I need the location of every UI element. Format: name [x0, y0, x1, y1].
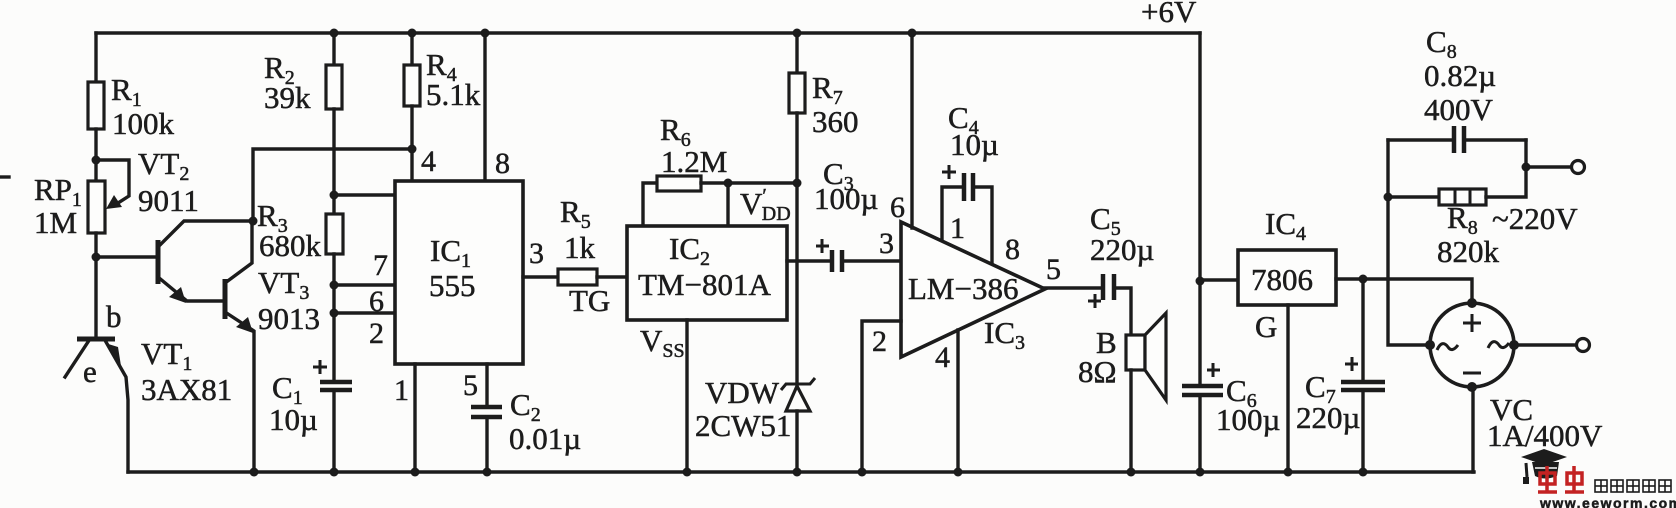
resistor R5: [558, 194, 610, 318]
node: rail/R2: [330, 29, 339, 38]
wire: R5 to IC2: [597, 275, 627, 278]
node: ground C1: [330, 468, 339, 477]
node: rail/pin8: [481, 29, 490, 38]
transistor VT2 emitter with arrow: [158, 277, 225, 303]
wire: +6V drop at right: [1198, 33, 1201, 281]
svg-text:2: 2: [872, 325, 887, 358]
watermark: red chong glyph 2: [1565, 466, 1584, 492]
transistor VT3 emitter to ground: [225, 312, 254, 472]
capacitor C6: [1182, 281, 1280, 437]
svg-text:3: 3: [879, 227, 894, 260]
wire: pin 5: [485, 364, 488, 407]
transistor VT1 emitter open lead: [65, 342, 88, 377]
resistor R4: [404, 33, 481, 112]
node: 7806 output junction: [1196, 277, 1205, 286]
node: ground pin1: [411, 468, 420, 477]
upper AC terminal: [1572, 161, 1585, 174]
svg-text:VDW: VDW: [705, 375, 780, 410]
svg-text:5: 5: [463, 369, 478, 402]
svg-text:1: 1: [394, 374, 409, 407]
wire: pin 3 output: [523, 275, 558, 278]
bridge rectifier VC body: [1430, 303, 1603, 453]
node: AC terminal junction: [1522, 163, 1531, 172]
node: ground pin4: [954, 468, 963, 477]
svg-text:220µ: 220µ: [1090, 232, 1154, 267]
node: ground G: [1284, 468, 1293, 477]
wire: IC2 output: [787, 259, 831, 262]
capacitor C3: [814, 156, 878, 272]
svg-text:0.01µ: 0.01µ: [509, 421, 581, 456]
svg-text:39k: 39k: [264, 80, 311, 115]
wire: R6 to R7 column: [701, 181, 797, 184]
svg-text:www.eeworm.com: www.eeworm.com: [1539, 495, 1676, 508]
svg-text:3: 3: [529, 237, 544, 270]
potentiometer RP1: [34, 172, 105, 240]
wire: G pin to ground: [1286, 305, 1289, 472]
resistor R1: [88, 72, 175, 141]
wire: C1 to ground: [332, 390, 335, 472]
resistor R2: [264, 33, 342, 115]
wire: C6 to ground: [1198, 395, 1201, 472]
resistor R7: [789, 33, 859, 139]
svg-text:4: 4: [935, 341, 950, 374]
svg-text:680k: 680k: [259, 228, 322, 263]
svg-text:8: 8: [1005, 233, 1020, 266]
capacitor C2: [471, 387, 581, 456]
wire: VDD pin: [726, 183, 729, 226]
voltage regulator IC4 7806: [1238, 206, 1336, 344]
svg-text:G: G: [1255, 309, 1277, 344]
wire: R4 down to pin4 node: [410, 106, 413, 149]
IC3 LM-386 amplifier triangle: [901, 222, 1045, 357]
node: VDD junction: [724, 179, 733, 188]
svg-text:100k: 100k: [112, 106, 175, 141]
wire: VSS pin to ground: [685, 320, 688, 472]
svg-text:b: b: [106, 299, 122, 334]
wire: node down to VT1 base: [94, 257, 97, 337]
svg-text:7: 7: [373, 249, 388, 282]
svg-text:3AX81: 3AX81: [141, 372, 232, 407]
svg-text:e: e: [83, 354, 97, 389]
svg-text:8: 8: [495, 147, 510, 180]
wire: R1 to RP1: [94, 129, 97, 181]
wire: R8 right to junction column: [1486, 140, 1526, 197]
left edge scan mark: [0, 175, 9, 178]
svg-text:5.1k: 5.1k: [426, 77, 481, 112]
node: bridge bottom terminal: [1467, 382, 1477, 392]
capacitor C5: [1088, 201, 1154, 308]
node: pin6 junction: [330, 281, 339, 290]
transistor VT3 collector: [225, 223, 252, 283]
node: ground speaker: [1127, 468, 1136, 477]
resistor R3: [257, 198, 343, 263]
wire: pin 4 to ground: [956, 330, 959, 472]
svg-text:1M: 1M: [34, 205, 77, 240]
wire: +6V top supply rail: [96, 31, 1200, 34]
svg-text:~220V: ~220V: [1492, 201, 1578, 236]
capacitor C4 bypass loop: [942, 100, 999, 263]
wire: base node to VT2: [96, 255, 158, 258]
svg-text:2CW51: 2CW51: [695, 408, 791, 443]
capacitor C1: [269, 360, 352, 437]
svg-text:1A/400V: 1A/400V: [1487, 418, 1603, 453]
wire: RP1 to base node: [94, 233, 97, 257]
svg-text:9013: 9013: [258, 301, 320, 336]
svg-text:7806: 7806: [1251, 262, 1313, 297]
node: ground C6: [1196, 468, 1205, 477]
transistor VT2 bar: [156, 240, 161, 284]
node: VT2 base junction: [92, 253, 101, 262]
svg-text:820k: 820k: [1437, 234, 1500, 269]
wire: C3 to LM386 input: [842, 259, 901, 262]
capacitor C8: [1388, 24, 1526, 153]
wire: pin 4: [410, 149, 413, 181]
node: R8 left junction: [1384, 193, 1393, 202]
svg-text:6: 6: [890, 191, 905, 224]
wire: C2 to ground: [485, 417, 488, 472]
svg-text:2: 2: [369, 317, 384, 350]
node: R1/RP1 junction: [92, 156, 101, 165]
svg-text:100µ: 100µ: [1216, 402, 1280, 437]
svg-text:0.82µ: 0.82µ: [1424, 58, 1496, 93]
node: R7/VDD wire: [793, 179, 802, 188]
potentiometer RP1 wiper wire: [96, 160, 129, 209]
watermark: graduation cap icon: [1521, 449, 1567, 484]
wire: bridge right AC to lower terminal: [1514, 343, 1576, 346]
IC2 TM-801A box: [627, 226, 787, 320]
wire: pin 2 to ground: [862, 321, 901, 472]
node: collector junction: [249, 217, 258, 226]
wire: R7 down: [795, 113, 798, 183]
svg-text:100µ: 100µ: [814, 181, 878, 216]
wire: C5 to speaker: [1115, 288, 1131, 335]
transistor VT2 collector: [158, 221, 253, 247]
wire: down to zener: [795, 183, 798, 384]
wire: pin 5 output: [1045, 286, 1102, 289]
svg-text:9011: 9011: [138, 183, 199, 218]
svg-text:220µ: 220µ: [1296, 400, 1360, 435]
svg-text:1: 1: [950, 212, 965, 245]
transistor VT3 bar: [223, 279, 228, 319]
wire: bridge bottom to ground rail: [1471, 387, 1474, 472]
node: ground VT3: [250, 468, 259, 477]
wire: R3 down to C1: [332, 254, 335, 382]
wire: 7806 output: [1200, 278, 1238, 281]
svg-text:10µ: 10µ: [269, 402, 318, 437]
svg-text:1.2M: 1.2M: [661, 144, 727, 179]
svg-text:+6V: +6V: [1141, 0, 1197, 29]
node: ground pin2: [858, 468, 867, 477]
label VT3 9013: [258, 265, 320, 336]
wire: pin 2: [334, 311, 395, 314]
resistor R6: [643, 112, 727, 226]
node: bridge top terminal: [1467, 298, 1477, 308]
capacitor C7: [1296, 279, 1385, 435]
node: rail/pin6: [908, 29, 917, 38]
speaker B: [1078, 313, 1166, 400]
svg-text:555: 555: [429, 268, 476, 303]
wire: speaker to ground: [1129, 370, 1132, 472]
transistor VT1 collector to ground: [105, 342, 128, 472]
watermark: black site name glyphs: [1595, 480, 1671, 492]
svg-text:360: 360: [812, 104, 859, 139]
diode VDW 2CW51 zener: [695, 375, 815, 443]
wire: to upper AC terminal: [1526, 165, 1571, 168]
wire: pin 1 to ground: [413, 364, 416, 472]
node: pin2 junction: [330, 309, 339, 318]
wire: bottom ground rail: [128, 470, 1474, 473]
label VT2 9011: [138, 146, 199, 218]
lower AC terminal: [1577, 339, 1590, 352]
wire: left supply drop to R1: [94, 33, 97, 82]
node: bridge left terminal: [1425, 340, 1435, 350]
wire: pin 7: [334, 193, 395, 196]
node: ground zener: [793, 468, 802, 477]
label VT1 3AX81: [141, 336, 232, 407]
svg-text:10µ: 10µ: [950, 127, 999, 162]
wire: 7806 input: [1336, 279, 1472, 303]
node: ground C2: [483, 468, 492, 477]
node: rail/R7: [793, 29, 802, 38]
wire: zener to ground: [795, 411, 798, 472]
svg-text:1k: 1k: [564, 230, 596, 265]
watermark: red chong glyph 1: [1538, 466, 1557, 492]
svg-text:5: 5: [1046, 253, 1061, 286]
transistor VT1 base bar: [77, 337, 115, 342]
resistor R8: [1388, 189, 1500, 269]
svg-text:TG: TG: [569, 283, 610, 318]
svg-text:8Ω: 8Ω: [1078, 354, 1117, 389]
wire: pin 6: [334, 283, 395, 286]
wire: bridge left AC up to C8/R8: [1388, 140, 1430, 345]
svg-text:TM−801A: TM−801A: [638, 267, 771, 302]
node: rail/R4: [408, 29, 417, 38]
node: C7 junction: [1359, 275, 1368, 284]
node: ground C7: [1359, 468, 1368, 477]
node: R2/R3/pin7: [330, 191, 339, 200]
node: pin4 junction: [408, 145, 417, 154]
wire: R2 down to node: [332, 109, 335, 214]
wire: pin 8: [483, 33, 486, 181]
node: bridge right terminal: [1509, 340, 1519, 350]
svg-text:400V: 400V: [1424, 92, 1494, 127]
wire: pin 6 supply: [910, 33, 913, 228]
svg-text:4: 4: [421, 145, 436, 178]
wire: collector node across to pin 4: [253, 149, 412, 221]
wire: C7 to ground: [1361, 390, 1364, 472]
node: ground VSS: [683, 468, 692, 477]
svg-text:LM−386: LM−386: [908, 271, 1018, 306]
IC1 555 timer box: [395, 181, 523, 364]
